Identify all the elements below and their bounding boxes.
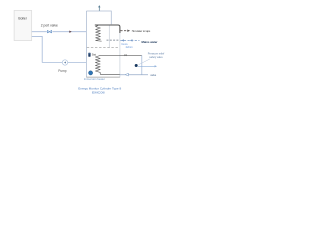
pump P1 <box>62 60 67 65</box>
background <box>0 0 178 100</box>
svg-text:safety valve: safety valve <box>149 55 163 59</box>
svg-text:EMC08: EMC08 <box>92 91 105 95</box>
cylinder bottom edge <box>86 76 120 78</box>
coil lower + cold feed line <box>95 55 141 74</box>
wire top pipe <box>86 11 111 24</box>
mains arrows <box>121 39 124 41</box>
wire pump line <box>42 62 86 64</box>
tiny valve tick on feed line <box>125 54 127 56</box>
mains water pipe outer dashes <box>120 39 139 41</box>
valve V1 bowtie <box>47 30 53 33</box>
boiler box <box>14 11 32 41</box>
svg-text:Stat: Stat <box>92 53 96 57</box>
hot water pipe dashes <box>120 30 127 32</box>
svg-text:Immersion heater: Immersion heater <box>84 78 105 81</box>
svg-text:Boiler: Boiler <box>18 17 27 21</box>
svg-text:Pressure relief: Pressure relief <box>148 51 165 55</box>
discharge arrow <box>138 65 155 67</box>
coil heat exchanger <box>96 25 102 41</box>
flow arrow on valve line <box>69 31 71 33</box>
svg-text:2 port valve: 2 port valve <box>41 24 58 28</box>
wire riser / cylinder left edge <box>85 11 87 77</box>
hot water arrow <box>127 30 130 32</box>
svg-text:valve: valve <box>150 73 157 77</box>
wire flow line boiler to cylinder <box>32 31 87 33</box>
check valve <box>125 73 128 76</box>
water level dashed line <box>87 47 119 49</box>
svg-text:Pump: Pump <box>58 69 67 73</box>
svg-text:Mains water: Mains water <box>142 40 159 44</box>
interior feed pipe <box>108 26 110 48</box>
sensor circle <box>89 71 93 75</box>
wire drain outside <box>120 74 148 76</box>
svg-text:22mm: 22mm <box>126 46 133 49</box>
cylinder right edge <box>119 33 121 77</box>
mains vertical pipe <box>141 55 143 74</box>
prv dot <box>135 64 138 67</box>
drain line <box>100 74 120 76</box>
svg-text:Hot water to taps: Hot water to taps <box>132 29 151 33</box>
mains water pipe dashes <box>107 39 120 41</box>
wire return line boiler <box>32 36 43 62</box>
stat sensor <box>88 53 90 57</box>
vent arrow <box>98 5 100 11</box>
cylinder dome <box>95 25 120 33</box>
callout leader <box>139 59 150 65</box>
